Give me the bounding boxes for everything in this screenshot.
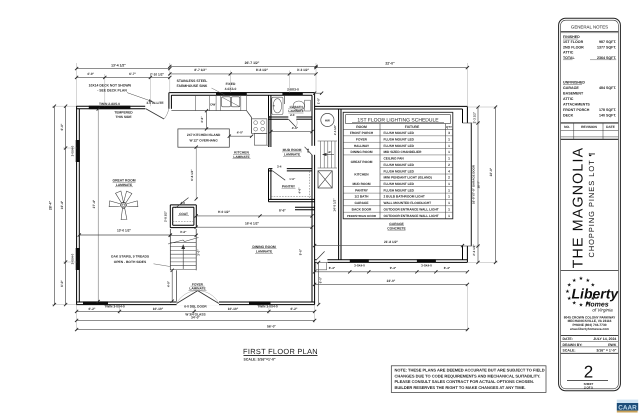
svg-text:2-4: 2-4 <box>277 165 282 169</box>
svg-text:HALLWAY: HALLWAY <box>354 144 370 148</box>
window FIXED 4-0X3-0 kitchen <box>216 92 247 95</box>
svg-text:DINING ROOM: DINING ROOM <box>252 245 276 249</box>
svg-text:TWIN 3-0X4-0: TWIN 3-0X4-0 <box>104 305 125 309</box>
dim garage 21-8 1/2 inside <box>315 245 463 247</box>
table row KITCHEN FLUSH MOUNT LED <box>380 173 453 175</box>
refrigerator <box>254 133 267 145</box>
svg-text:LAMINATE: LAMINATE <box>233 155 249 159</box>
svg-text:6'-0": 6'-0" <box>319 276 323 283</box>
svg-text:9'-6": 9'-6" <box>298 248 302 255</box>
svg-text:ATTACHMENTS: ATTACHMENTS <box>563 103 590 107</box>
svg-text:1: 1 <box>448 207 450 211</box>
svg-text:FIXTURE: FIXTURE <box>405 125 420 129</box>
corridor / garage left wall <box>338 109 340 260</box>
svg-text:4-0X3-0: 4-0X3-0 <box>225 87 237 91</box>
svg-text:6'-4": 6'-4" <box>444 266 451 270</box>
window twin 3-0X4-0 bottom-left <box>83 301 108 304</box>
back door swing from mud room <box>305 147 312 155</box>
table row GREAT ROOM CEILING FAN <box>380 160 453 162</box>
svg-text:2: 2 <box>448 163 450 167</box>
svg-text:22'-0": 22'-0" <box>385 62 395 66</box>
svg-text:SCALE:: SCALE: <box>563 349 576 353</box>
svg-text:3: 3 <box>448 131 450 135</box>
svg-text:4'-0": 4'-0" <box>237 131 244 135</box>
extension lines top <box>76 63 78 106</box>
table row DINING ROOM MID SIZED CHANDELIER <box>343 154 453 156</box>
coat closet walls <box>170 204 196 206</box>
1st floor lighting schedule table <box>343 112 453 219</box>
svg-text:2: 2 <box>584 363 593 382</box>
svg-text:DW: DW <box>210 102 215 106</box>
svg-text:4: 4 <box>448 169 450 173</box>
svg-text:LAMINATE: LAMINATE <box>189 287 205 291</box>
dim 13-4 1/2 <box>77 68 170 70</box>
svg-text:QTY: QTY <box>446 125 452 129</box>
dim 34-0 <box>77 319 315 321</box>
svg-text:DATE: DATE <box>606 125 616 129</box>
svg-text:REVISION: REVISION <box>581 125 597 129</box>
svg-text:STAINLESS STEEL: STAINLESS STEEL <box>177 79 208 83</box>
basement stairs <box>318 140 337 142</box>
stairs UP arrow <box>324 154 334 156</box>
table row FOYER FLUSH MOUNT LED <box>343 141 453 143</box>
svg-text:BACK DOOR: BACK DOOR <box>352 207 372 211</box>
svg-text:FARMHOUSE SINK: FARMHOUSE SINK <box>177 84 208 88</box>
svg-text:1: 1 <box>448 195 450 199</box>
svg-text:FRONT PORCH: FRONT PORCH <box>563 108 590 112</box>
svg-text:MUD ROOM: MUD ROOM <box>283 148 302 152</box>
svg-text:56'-0": 56'-0" <box>267 324 276 328</box>
title block border <box>559 18 621 391</box>
svg-text:BASEMENT: BASEMENT <box>563 92 584 96</box>
bath partition <box>284 95 286 104</box>
svg-text:TOTAL: TOTAL <box>563 56 575 60</box>
table row PANTRY FLUSH MOUNT LED <box>343 192 453 194</box>
svg-text:FOYER: FOYER <box>356 137 368 141</box>
dim 3-2 stairs width <box>170 234 196 236</box>
dim right 22-0 <box>495 107 497 262</box>
svg-text:16'-7": 16'-7" <box>477 180 481 188</box>
svg-text:BUILDER RESERVES THE RIGHT TO: BUILDER RESERVES THE RIGHT TO MAKE CHANG… <box>395 385 526 390</box>
dim 4-9 foyer height <box>171 270 173 301</box>
svg-text:21'-8 1/2": 21'-8 1/2" <box>384 240 398 244</box>
dim left inner 6-0 / 16-4 / 6-0 <box>65 106 67 304</box>
plans disclaimer note box <box>391 366 546 393</box>
svg-text:3-0X4-0: 3-0X4-0 <box>354 263 365 267</box>
svg-text:3/16" = 1'-0": 3/16" = 1'-0" <box>596 349 616 353</box>
svg-text:4'-6": 4'-6" <box>292 126 299 130</box>
svg-text:GREAT ROOM: GREAT ROOM <box>351 160 373 164</box>
svg-text:OPEN - BOTH SIDES: OPEN - BOTH SIDES <box>114 260 147 264</box>
svg-text:★: ★ <box>579 302 584 308</box>
svg-text:2-0: 2-0 <box>290 113 295 117</box>
svg-text:DINING ROOM: DINING ROOM <box>351 150 373 154</box>
window 3-0X4-0 left wall lower <box>76 248 80 270</box>
window 3-0X4-0 left wall upper <box>76 140 80 162</box>
svg-text:27'-4": 27'-4" <box>92 199 96 208</box>
window TWIN 2-8X5-0 top-left <box>89 106 131 109</box>
svg-text:NOTE: THESE PLANS ARE DEEMED A: NOTE: THESE PLANS ARE DEEMED ACCURATE BU… <box>395 368 545 373</box>
svg-text:GARAGE: GARAGE <box>389 222 404 226</box>
table row GREAT ROOM FLUSH MOUNT LED <box>380 167 453 169</box>
svg-text:CHOPPING PINES LOT ¶: CHOPPING PINES LOT ¶ <box>587 152 596 258</box>
garage window left <box>350 259 369 262</box>
svg-text:1: 1 <box>448 150 450 154</box>
dim row2 left 4-0 / 6-7 / 7-10 1/2 <box>77 76 170 78</box>
svg-text:PLEASE CONSULT SALES CONTRACT: PLEASE CONSULT SALES CONTRACT FOR ACTUAL… <box>395 379 535 384</box>
table row KITCHEN MINI PENDANT LIGHT (ISLAND) <box>380 179 453 181</box>
pantry bottom wall <box>269 198 315 200</box>
svg-text:WALL MOUNTED FLOODLIGHT: WALL MOUNTED FLOODLIGHT <box>384 201 432 205</box>
svg-text:KITCHEN: KITCHEN <box>354 173 369 177</box>
CAAR logo <box>617 400 638 403</box>
svg-text:3'-2": 3'-2" <box>180 230 187 234</box>
date drawn scale rows <box>561 335 619 337</box>
svg-text:22'-0": 22'-0" <box>489 167 493 176</box>
svg-text:6'-0": 6'-0" <box>60 123 64 130</box>
svg-text:THE MAGNOLIA: THE MAGNOLIA <box>571 147 587 269</box>
dim 20-7 1/2 <box>170 65 316 67</box>
svg-text:2 OF 5: 2 OF 5 <box>584 385 593 389</box>
bath sink <box>272 97 283 114</box>
svg-text:FLUSH MOUNT LED: FLUSH MOUNT LED <box>384 188 415 192</box>
dining top wall stub <box>295 206 315 208</box>
svg-text:1: 1 <box>448 182 450 186</box>
bath door swing <box>289 119 296 127</box>
dim 22-0 garage top <box>316 67 467 69</box>
dim 1-0 top of corridor <box>315 92 322 94</box>
svg-text:8'-7 1/2": 8'-7 1/2" <box>194 68 207 72</box>
window twin 3-0X4-0 bottom-right <box>249 301 271 304</box>
svg-text:★: ★ <box>565 289 570 295</box>
svg-text:1/2 BATH: 1/2 BATH <box>355 195 370 199</box>
counter cabinet dividers <box>195 95 197 111</box>
svg-text:MID SIZED CHANDELIER: MID SIZED CHANDELIER <box>384 150 423 154</box>
svg-text:of Virginia: of Virginia <box>592 307 613 312</box>
svg-text:PANTRY: PANTRY <box>355 188 369 192</box>
svg-text:LAMINATE: LAMINATE <box>284 153 300 157</box>
extension lines left <box>52 105 76 107</box>
svg-text:TWIN 2-8X5-0: TWIN 2-8X5-0 <box>99 102 120 106</box>
svg-text:8'-6": 8'-6" <box>279 209 286 213</box>
svg-text:CHANGES DUE TO CODE REQUIREMEN: CHANGES DUE TO CODE REQUIREMENTS AND MEC… <box>395 373 541 378</box>
svg-text:2-8X3-0: 2-8X3-0 <box>287 87 299 91</box>
svg-text:RWK: RWK <box>608 343 617 347</box>
svg-text:1: 1 <box>448 201 450 205</box>
svg-text:3-0X4-0: 3-0X4-0 <box>71 253 75 264</box>
left exterior wall <box>76 106 78 305</box>
svg-text:4'-0": 4'-0" <box>298 187 302 194</box>
svg-text:FLUSH MOUNT LED: FLUSH MOUNT LED <box>384 137 415 141</box>
svg-text:FRONT PORCH: FRONT PORCH <box>350 131 374 135</box>
svg-text:★: ★ <box>579 276 584 282</box>
ceiling fan <box>109 191 138 220</box>
kitchen right counter edge <box>251 118 253 134</box>
svg-text:GENERAL NOTES: GENERAL NOTES <box>571 25 608 30</box>
stair direction arrow <box>182 248 184 269</box>
svg-text:FOYER: FOYER <box>192 282 204 286</box>
svg-text:16'-0"X7'-0" GARAGE DOOR: 16'-0"X7'-0" GARAGE DOOR <box>472 164 476 204</box>
svg-text:3-0X4-0: 3-0X4-0 <box>71 145 75 156</box>
svg-text:9'-4": 9'-4" <box>390 266 397 270</box>
svg-text:13'-4 1/2": 13'-4 1/2" <box>111 63 126 67</box>
svg-text:CAAR: CAAR <box>618 404 637 411</box>
top-left exterior wall <box>76 105 145 107</box>
svg-text:6-0 DBL DOOR: 6-0 DBL DOOR <box>184 305 207 309</box>
svg-text:★: ★ <box>572 278 577 284</box>
svg-text:1: 1 <box>448 157 450 161</box>
svg-text:NO.: NO. <box>564 125 570 129</box>
kitchen island 2x7 <box>178 129 229 147</box>
svg-text:OUTDOOR ENTRANCE WALL LIGHT: OUTDOOR ENTRANCE WALL LIGHT <box>384 207 439 211</box>
svg-text:4'-9": 4'-9" <box>166 280 170 287</box>
svg-text:3'-6": 3'-6" <box>200 116 204 123</box>
dim 8-0 1/2 kitchen vertical <box>195 147 197 199</box>
svg-text:2X7 KITCHEN ISLAND: 2X7 KITCHEN ISLAND <box>187 133 221 137</box>
svg-text:FINISHED: FINISHED <box>563 35 580 39</box>
table row HALLWAY FLUSH MOUNT LED <box>343 148 453 150</box>
svg-text:MUD ROOM: MUD ROOM <box>352 182 370 186</box>
svg-text:26'-7 1/2": 26'-7 1/2" <box>245 61 260 65</box>
dim 13-0 1/2 great room <box>79 234 170 236</box>
svg-text:FLUSH MOUNT LED: FLUSH MOUNT LED <box>384 163 415 167</box>
svg-text:4'-5 1/2": 4'-5 1/2" <box>334 124 337 135</box>
svg-text:22'-0": 22'-0" <box>387 279 396 283</box>
svg-text:Liberty: Liberty <box>572 286 620 302</box>
kitchen corner counter diagonal <box>247 111 252 118</box>
extension lines right garage <box>467 106 497 108</box>
coat door swing <box>175 198 188 208</box>
dim 9-0 1/2 and 8-6 dining <box>196 215 312 217</box>
table header row <box>343 129 453 131</box>
window 2-8X3-0 bath <box>282 92 302 95</box>
svg-text:3-0X4-0: 3-0X4-0 <box>421 263 432 267</box>
svg-text:34'-0": 34'-0" <box>191 315 200 319</box>
svg-text:16'-4": 16'-4" <box>60 200 64 209</box>
svg-text:10'-10": 10'-10" <box>153 307 164 311</box>
svg-text:MINI PENDANT LIGHT (ISLAND): MINI PENDANT LIGHT (ISLAND) <box>384 176 432 180</box>
svg-text:1'-6": 1'-6" <box>289 177 296 181</box>
svg-text:GREAT ROOM: GREAT ROOM <box>112 178 135 182</box>
dim garage bottom row 6-4 / 9-4 / 6-4 <box>315 271 468 273</box>
pantry door swing 2-4 <box>273 171 286 180</box>
svg-text:TEMPERED: TEMPERED <box>114 110 133 114</box>
svg-text:2ND FLOOR: 2ND FLOOR <box>563 45 584 49</box>
pantry top wall <box>269 168 273 170</box>
svg-text:HW: HW <box>325 118 330 122</box>
svg-text:FLUSH MOUNT LED: FLUSH MOUNT LED <box>384 131 415 135</box>
garage door panel <box>470 123 472 247</box>
svg-text:14'-5 1/2": 14'-5 1/2" <box>333 198 337 212</box>
svg-text:FLUSH MOUNT LED: FLUSH MOUNT LED <box>384 182 415 186</box>
svg-text:6'-0": 6'-0" <box>60 280 64 287</box>
svg-text:FIXED: FIXED <box>226 82 236 86</box>
farmhouse sink double bowl <box>222 97 231 107</box>
svg-text:COAT: COAT <box>179 212 188 216</box>
svg-text:JULY 14, 2024: JULY 14, 2024 <box>593 337 616 341</box>
dim row1 bottom 6-2 / 10-10 / 10-10 / 6-2 <box>77 310 315 312</box>
svg-text:GARAGE: GARAGE <box>563 86 579 90</box>
kitchen counter edge <box>171 110 246 112</box>
svg-text:6'-4": 6'-4" <box>329 266 336 270</box>
svg-text:CEILING FAN: CEILING FAN <box>384 157 405 161</box>
pantry shelves dashed <box>271 196 311 198</box>
pedestrian door stoop <box>316 262 327 269</box>
garage bottom exterior wall <box>315 261 468 263</box>
svg-text:2 BULB BATHROOM LIGHT: 2 BULB BATHROOM LIGHT <box>384 195 425 199</box>
svg-text:9'-0 1/2": 9'-0 1/2" <box>218 210 231 214</box>
dim 27-4 great room vertical <box>97 109 99 302</box>
svg-text:28'-4": 28'-4" <box>49 201 53 211</box>
dim 4-6 mud room <box>271 131 312 133</box>
svg-text:LAMINATE: LAMINATE <box>256 249 272 253</box>
bath and mud room left wall <box>268 95 270 147</box>
svg-text:6'-2": 6'-2" <box>291 307 298 311</box>
svg-text:3'-3 1/2": 3'-3 1/2" <box>297 68 310 72</box>
svg-text:FLUSH MOUNT LED: FLUSH MOUNT LED <box>384 144 415 148</box>
svg-text:1: 1 <box>448 137 450 141</box>
svg-text:www.libertyhomesva.com: www.libertyhomesva.com <box>569 327 609 331</box>
svg-text:484 SQFT.: 484 SQFT. <box>599 86 616 90</box>
svg-text:1ST FLOOR: 1ST FLOOR <box>563 40 584 44</box>
dim 6-0 below garage right of house <box>318 262 320 304</box>
Liberty Homes logo <box>565 276 619 312</box>
svg-text:2'-3 1/2": 2'-3 1/2" <box>472 111 476 123</box>
svg-text:TWIN 3-0X4-0: TWIN 3-0X4-0 <box>257 305 278 309</box>
svg-text:CONCRETE: CONCRETE <box>387 226 406 230</box>
svg-text:★: ★ <box>572 301 577 307</box>
svg-text:ATTIC: ATTIC <box>563 51 574 55</box>
table row 1/2 BATH 2 BULB BATHROOM LIGHT <box>343 198 453 200</box>
svg-text:UNFINISHED: UNFINISHED <box>563 81 585 85</box>
svg-text:ROOM: ROOM <box>356 125 367 129</box>
svg-text:2'-3 1/2": 2'-3 1/2" <box>472 244 476 256</box>
pedestrian door swing <box>317 251 325 259</box>
svg-text:DRAWN BY:: DRAWN BY: <box>563 343 583 347</box>
svg-text:ATTIC: ATTIC <box>563 97 574 101</box>
table row MUD ROOM FLUSH MOUNT LED <box>343 186 453 188</box>
extension lines bottom <box>76 305 78 331</box>
svg-text:10'-10": 10'-10" <box>228 307 239 311</box>
svg-text:178 SQFT.: 178 SQFT. <box>599 108 616 112</box>
svg-text:PEDESTRIAN DOOR: PEDESTRIAN DOOR <box>347 214 377 218</box>
svg-text:GARAGE: GARAGE <box>355 201 369 205</box>
svg-text:3'-0": 3'-0" <box>197 249 201 256</box>
svg-text:987 SQFT.: 987 SQFT. <box>599 40 616 44</box>
svg-text:1: 1 <box>448 214 450 218</box>
table row FRONT PORCH FLUSH MOUNT LED <box>343 135 453 137</box>
bath bottom wall <box>269 116 289 118</box>
svg-text:16'-6 1/2": 16'-6 1/2" <box>245 222 259 226</box>
svg-text:FLUSH MOUNT LED: FLUSH MOUNT LED <box>384 169 415 173</box>
svg-text:3-0: 3-0 <box>181 201 186 205</box>
svg-text:10X14 DECK NOT SHOWN: 10X14 DECK NOT SHOWN <box>89 84 132 88</box>
kitchen top exterior wall <box>169 92 315 94</box>
house right wall <box>314 93 316 305</box>
svg-text:2364 SQFT.: 2364 SQFT. <box>597 56 616 60</box>
svg-text:8'-8 1/2": 8'-8 1/2" <box>256 68 269 72</box>
dim garage door right 2-3 1/2 / 16-0 door / 2-3 1/2 <box>477 107 479 262</box>
svg-text:OUTDOOR ENTRANCE WALL LIGHT: OUTDOOR ENTRANCE WALL LIGHT <box>384 214 439 218</box>
svg-text:FIRST FLOOR PLAN: FIRST FLOOR PLAN <box>243 347 318 356</box>
svg-text:OAK STAIRS, 9 TREADS: OAK STAIRS, 9 TREADS <box>111 255 150 259</box>
svg-text:6'-7": 6'-7" <box>129 72 136 76</box>
dim 3-6 kitchen vertical <box>206 111 208 129</box>
pantry left wall <box>268 169 270 202</box>
svg-text:SCALE: 3/16"=1'-0": SCALE: 3/16"=1'-0" <box>244 357 276 361</box>
dim 4-0 island to counter <box>229 135 251 137</box>
front door 3-0 in-lite leaf and swing <box>146 109 164 119</box>
svg-text:PANTRY: PANTRY <box>282 184 296 188</box>
stair break line <box>168 240 183 244</box>
svg-text:1377 SQFT.: 1377 SQFT. <box>597 45 616 49</box>
svg-text:1: 1 <box>448 188 450 192</box>
table row GARAGE WALL MOUNTED FLOODLIGHT <box>343 205 453 207</box>
svg-text:UP: UP <box>328 151 332 154</box>
toilet <box>293 101 304 110</box>
svg-text:140 SQFT.: 140 SQFT. <box>599 114 616 118</box>
revision table <box>561 122 619 124</box>
svg-text:6'-8 1/2": 6'-8 1/2" <box>190 169 194 181</box>
svg-text:1'-0": 1'-0" <box>317 97 321 104</box>
mechanical X box <box>318 171 332 188</box>
stairs oak 9 treads <box>169 229 171 270</box>
water heater HW <box>321 113 334 126</box>
svg-text:1: 1 <box>448 144 450 148</box>
range 4 burners <box>252 119 267 134</box>
svg-text:W 12" OVERHANG: W 12" OVERHANG <box>189 139 218 143</box>
dim row2 kitchen 8-7 1/2 / 8-8 1/2 / 3-3 1/2 <box>170 73 316 75</box>
svg-text:2: 2 <box>448 176 450 180</box>
svg-text:DECK: DECK <box>563 114 574 118</box>
front double door leaves <box>177 291 198 304</box>
svg-text:DATE:: DATE: <box>563 337 573 341</box>
coat rod dashed <box>173 221 194 223</box>
dim 56-0 <box>77 329 468 331</box>
foyer wall below stairs <box>176 270 178 301</box>
table row BACK DOOR OUTDOOR ENTRANCE WALL LIGHT <box>343 211 453 213</box>
svg-text:6'-2": 6'-2" <box>89 307 96 311</box>
dim garage 22-0 bottom <box>315 283 468 285</box>
svg-text:- SEE DECK PLAN: - SEE DECK PLAN <box>97 88 127 92</box>
svg-text:2'-8 1/2": 2'-8 1/2" <box>163 210 167 222</box>
dim left outer 28-4 <box>53 106 55 304</box>
svg-text:KITCHEN: KITCHEN <box>234 150 249 154</box>
garage window right <box>417 259 436 262</box>
svg-text:LAMINATE: LAMINATE <box>116 183 132 187</box>
svg-text:7'-10 1/2": 7'-10 1/2" <box>150 72 164 76</box>
svg-text:2-8: 2-8 <box>306 148 310 153</box>
front entry jamb wall <box>168 93 170 109</box>
svg-text:13'-0 1/2": 13'-0 1/2" <box>117 229 131 233</box>
svg-text:4'-0": 4'-0" <box>87 72 94 76</box>
dim 16-6 1/2 dining <box>196 226 312 228</box>
svg-text:THIS SIDE: THIS SIDE <box>115 115 132 119</box>
garage right wall <box>466 106 468 123</box>
bottom exterior wall <box>76 304 314 306</box>
garage top exterior wall <box>315 105 468 107</box>
